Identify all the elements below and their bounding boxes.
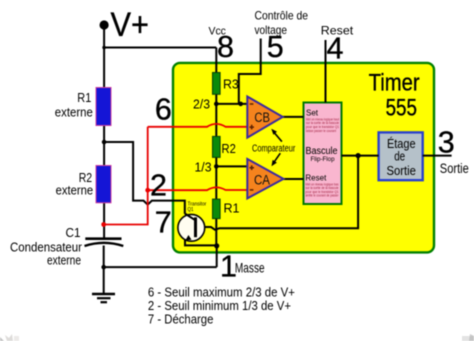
svg-text:C1: C1 [66, 226, 81, 240]
svg-text:Sortie: Sortie [386, 163, 416, 178]
wire pin 4 reset to flip-flop [325, 40, 327, 103]
svg-text:arrête le courant de passer: arrête le courant de passer [306, 194, 340, 198]
svg-text:CA: CA [254, 172, 270, 187]
svg-text:R1: R1 [77, 91, 91, 105]
wire CB output to Set [283, 116, 304, 118]
wire R1 externe bottom segment [103, 126, 105, 167]
wire pin 8 drop to R3 [215, 48, 217, 74]
node flip-flop output junction [356, 153, 361, 158]
svg-text:Reset: Reset [305, 174, 327, 183]
svg-text:Flip-Flop: Flip-Flop [311, 156, 335, 163]
svg-text:6 - Seuil maximum 2/3 de V+: 6 - Seuil maximum 2/3 de V+ [148, 286, 295, 300]
node control voltage join [238, 102, 243, 107]
svg-text:3: 3 [438, 126, 455, 160]
wire capacitor to ground node [103, 246, 105, 268]
wire flip-flop output to output stage [342, 155, 379, 157]
wire pin 7 discharge to transistor collector [104, 142, 185, 214]
node top rail junction [102, 46, 106, 50]
resistor R2 externe [96, 166, 111, 203]
node discharge junction [102, 140, 107, 145]
svg-text:Contrôle de: Contrôle de [255, 9, 309, 23]
wire ground rail to pin 1 [104, 266, 217, 268]
svg-text:externe: externe [56, 184, 94, 198]
svg-text:V+: V+ [111, 6, 150, 44]
svg-text:de: de [394, 149, 405, 164]
svg-text:7: 7 [155, 206, 172, 240]
svg-text:Comparateur: Comparateur [252, 143, 296, 154]
node ground rail junction [101, 265, 106, 270]
wire 1/3 node to CA + input [216, 165, 247, 167]
resistor R3 (internal) [213, 73, 221, 95]
resistor R1 externe [96, 88, 111, 126]
node trigger red junction at C1 [101, 222, 106, 227]
svg-text:Q1: Q1 [188, 207, 194, 213]
ground [92, 293, 115, 296]
comparator CA [247, 159, 283, 199]
wire R2 externe bottom to capacitor [103, 203, 105, 239]
svg-text:7 - Décharge: 7 - Décharge [148, 313, 214, 327]
svg-text:externe: externe [47, 254, 81, 268]
wire red branch to CB + (pin 6 threshold) [148, 124, 248, 127]
corner smudge right [462, 336, 474, 341]
wire V+ stem [103, 25, 105, 88]
node 1/3 [214, 164, 219, 169]
svg-text:Set: Set [306, 109, 319, 118]
svg-text:laisse passer le courant: laisse passer le courant [306, 129, 336, 133]
svg-text:555: 555 [386, 95, 417, 122]
svg-text:5: 5 [267, 30, 284, 64]
node trigger red branch junction [145, 188, 150, 193]
wire transistor emitter to ground node [185, 234, 217, 246]
capacitor C1 externe [85, 237, 121, 240]
wire top rail V+ to pin 8 [104, 47, 216, 49]
corner smudge left [0, 337, 4, 341]
wire trigger net (red) pins 2 and 6 [104, 127, 148, 225]
svg-text:Sortie: Sortie [440, 161, 469, 176]
svg-text:1/3: 1/3 [195, 160, 212, 174]
svg-text:R3: R3 [223, 77, 239, 91]
wire feedback flip-flop to transistor base [197, 156, 358, 230]
svg-text:Condensateur: Condensateur [10, 241, 82, 255]
svg-text:4: 4 [327, 32, 344, 66]
svg-text:2/3: 2/3 [193, 98, 210, 112]
svg-text:8: 8 [217, 30, 234, 64]
svg-text:Timer: Timer [369, 70, 420, 97]
wire red branch to CA - (pin 2 trigger) [148, 187, 248, 190]
flip-flop U2 (Bascule) [304, 103, 342, 205]
svg-text:R2: R2 [222, 142, 236, 156]
svg-text:CB: CB [254, 110, 270, 125]
svg-text:2: 2 [150, 169, 167, 203]
wire 2/3 node to CB - input [216, 103, 247, 105]
resistor R2 (internal) [213, 136, 221, 157]
svg-text:2 - Seuil minimum 1/3 de V+: 2 - Seuil minimum 1/3 de V+ [148, 299, 291, 313]
wire pin 1 masse drop [216, 246, 218, 267]
transistor Q1 [178, 214, 205, 241]
svg-text:6: 6 [155, 93, 172, 127]
resistor R1 (internal) [213, 199, 221, 219]
svg-text:R1: R1 [224, 201, 240, 215]
wire CA output to Reset [284, 178, 304, 180]
wire pin 5 control voltage to 2/3 node [239, 39, 261, 104]
IC body Timer 555 (yellow box) [173, 63, 434, 253]
svg-text:Masse: Masse [235, 260, 265, 275]
wire ground stem [103, 267, 105, 294]
node emitter ground junction [214, 243, 219, 248]
node 2/3 [214, 102, 219, 107]
svg-text:externe: externe [55, 106, 93, 120]
node V+ terminal [100, 20, 109, 29]
wire divider chain [215, 74, 217, 246]
wire pin 3 output [423, 155, 452, 157]
comparator CB [247, 97, 282, 138]
output stage U3 (Étage de Sortie) [379, 132, 423, 180]
